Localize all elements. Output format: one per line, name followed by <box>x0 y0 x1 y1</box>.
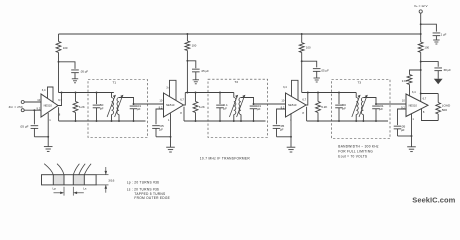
label Zin = 25K <box>9 105 24 109</box>
capacitor C3 50pF (T1 primary) <box>93 93 104 122</box>
svg-text:FOR FULL LIMITING: FOR FULL LIMITING <box>338 149 373 153</box>
svg-text:V+ = 12 V: V+ = 12 V <box>414 4 429 8</box>
label winding notes <box>127 180 171 199</box>
svg-text:µF: µF <box>257 107 261 111</box>
svg-text:3.8K: 3.8K <box>402 79 408 83</box>
capacitor C6 50pF (T2 primary) <box>216 93 228 122</box>
svg-text:pF: pF <box>100 107 104 111</box>
wire U1 output downlink <box>58 107 60 121</box>
wire T3 secondary tap <box>363 98 377 105</box>
pin 3,4 U4 <box>412 90 416 94</box>
pin 6,7 U1 <box>58 98 62 102</box>
wire stage3 bottom rail <box>307 120 388 122</box>
capacitor C6b .01uF (T2 tap) <box>250 104 262 121</box>
svg-text:9,2: 9,2 <box>37 106 41 110</box>
wire load bottom <box>422 109 439 121</box>
wire U3 feedback strap <box>292 80 299 100</box>
svg-text:100: 100 <box>306 46 311 50</box>
pin 10 U2 <box>159 98 162 102</box>
svg-text:µF: µF <box>401 128 405 132</box>
wire Lp leads <box>44 164 64 175</box>
svg-text:µF: µF <box>379 107 383 111</box>
svg-text:3,4: 3,4 <box>412 90 416 94</box>
svg-text:10: 10 <box>159 98 162 102</box>
svg-text:100: 100 <box>424 46 429 50</box>
wire U3 output riser <box>306 93 308 106</box>
capacitor C3b .01uF (T1 tap) <box>130 104 142 121</box>
op-amp U2 NE510 <box>164 93 184 117</box>
svg-text:T3: T3 <box>358 80 362 84</box>
svg-text:Lp: Lp <box>53 187 57 191</box>
capacitor C7 .05uF (stage3 bypass) <box>313 69 329 78</box>
svg-text:.05 µF: .05 µF <box>321 69 329 73</box>
pin 10 U3 <box>281 98 284 102</box>
wire load top <box>421 93 439 95</box>
svg-text:1 µF: 1 µF <box>441 33 447 37</box>
svg-text:Eout = 70 VOLTS: Eout = 70 VOLTS <box>338 154 367 158</box>
node stage2 supply junction <box>186 60 188 62</box>
pin 1 U2 <box>168 118 170 122</box>
node stage4 68uF junction <box>420 61 422 63</box>
inductor T2 secondary <box>237 95 246 121</box>
svg-text:.05 µF: .05 µF <box>20 125 29 129</box>
ground 1uF <box>433 40 439 44</box>
wire stage2 bottom rail <box>184 120 266 122</box>
svg-text:500: 500 <box>442 108 447 112</box>
capacitor C1 .05uF (stage1 bypass) <box>71 69 88 78</box>
node input terminal bottom <box>21 109 24 112</box>
svg-text:LOAD: LOAD <box>442 103 451 107</box>
wire 68uF branch <box>421 62 439 67</box>
capacitor C11 68uF <box>434 68 451 79</box>
svg-text:BANDWIDTH ~ 300 KHz: BANDWIDTH ~ 300 KHz <box>338 144 379 148</box>
resistor R8 6.2K (stage3 load) <box>316 93 328 122</box>
svg-text:3,4: 3,4 <box>42 88 46 92</box>
ground 68uF (solid) <box>434 79 443 85</box>
resistor R2 100 (stage2 supply dropper) <box>185 34 197 93</box>
wire U2 output riser <box>184 93 186 106</box>
wire U1 feedback strap <box>48 87 54 102</box>
resistor R9 LOAD 500 <box>436 94 451 121</box>
pin 1 U4 <box>412 117 414 121</box>
svg-text:6,7: 6,7 <box>302 97 306 101</box>
svg-text:FROM OUTER EDGE: FROM OUTER EDGE <box>134 196 170 200</box>
wire U1 output riser <box>58 93 62 106</box>
capacitor C5 .05uF (U2 input bypass) <box>152 109 164 137</box>
pin 8 U2 <box>180 111 182 115</box>
pin 8 U4 <box>423 110 425 114</box>
wire T1 secondary tap <box>119 98 134 105</box>
op-amp U4 NE510 <box>406 94 428 117</box>
pin 9,2 U4 <box>401 106 405 110</box>
ground U2 <box>166 137 175 152</box>
capacitor C2 .05uF (U1 input bypass) <box>20 110 39 137</box>
wire stage1 bottom rail <box>59 120 146 122</box>
wire U2 ground link <box>156 113 171 137</box>
wire T2 secondary tap <box>241 98 254 105</box>
capacitor C9b .01uF (T3 tap) <box>372 104 384 121</box>
label 10.7 MHz IF transformer <box>200 156 251 160</box>
ground stage2 bypass <box>193 80 199 84</box>
pin 10 U1 <box>37 98 40 102</box>
svg-text:µF: µF <box>223 107 227 111</box>
capacitor C9 50pF (T3 primary) <box>335 93 346 122</box>
wire stage1 bypass branch <box>59 62 76 69</box>
pin 9,2 U2 <box>159 106 163 110</box>
pin 8 U1 <box>59 112 61 116</box>
svg-text:Ls: Ls <box>83 187 87 191</box>
wire stage1 top rail <box>59 92 114 94</box>
node V+ junction <box>420 23 422 25</box>
transformer T3 box <box>332 80 391 139</box>
transformer T2 box <box>208 79 268 137</box>
label Ls <box>83 187 87 191</box>
op-amp U3 NE510 <box>286 93 307 117</box>
wire U2 feedback strap <box>170 80 177 100</box>
ground U4 <box>407 136 416 152</box>
inductor T1 primary <box>107 93 116 122</box>
svg-text:100: 100 <box>63 46 68 50</box>
wire T3 to U4 <box>376 103 406 105</box>
wire U4 output riser <box>420 94 422 102</box>
resistor R1 100 (stage1 supply dropper) <box>56 34 68 93</box>
svg-text:SeekIC.com: SeekIC.com <box>412 196 455 205</box>
wire U3 ground link <box>277 113 292 137</box>
node stage4 bias junction <box>420 69 422 71</box>
op-amp U1 NE510 <box>41 94 58 117</box>
svg-text:.05 µF: .05 µF <box>201 69 209 73</box>
ground U1 <box>44 137 53 152</box>
resistor R3 100 (stage3 supply dropper) <box>299 34 311 93</box>
wire input top <box>24 101 41 103</box>
wire stage3 top rail <box>302 92 357 94</box>
wire stage2 bypass branch <box>187 61 195 68</box>
svg-text:6.2K: 6.2K <box>199 105 205 109</box>
svg-text:100: 100 <box>192 44 197 48</box>
pin 1 U1 <box>49 118 51 122</box>
pin 3,4 U3 <box>283 85 287 89</box>
inductor T2 primary <box>229 93 238 122</box>
svg-text:µF: µF <box>280 128 284 132</box>
wire U4 ground link <box>398 114 413 137</box>
capacitor C8 .05uF (U3 input bypass) <box>273 109 286 137</box>
svg-text:10: 10 <box>402 98 405 102</box>
pin 1 U3 <box>290 118 292 122</box>
svg-text:Ls : 20 TURNS #36: Ls : 20 TURNS #36 <box>127 187 159 191</box>
wire V+ rail <box>59 33 421 35</box>
label SeekIC.com watermark <box>412 196 455 205</box>
inductor T3 secondary <box>359 95 368 121</box>
svg-text:NE510: NE510 <box>409 104 418 108</box>
svg-text:3/16: 3/16 <box>108 178 114 182</box>
label bandwidth note <box>338 144 379 158</box>
svg-text:µF: µF <box>137 107 141 111</box>
inductor T3 primary <box>352 93 361 122</box>
dimension winding spacing <box>54 187 84 196</box>
pin 9,2 U3 <box>281 106 285 110</box>
wire U2 output downlink <box>183 107 185 121</box>
capacitor C10 1uF <box>433 33 447 40</box>
transformer T1 box <box>88 80 148 138</box>
svg-text:6.2K: 6.2K <box>321 105 327 109</box>
svg-text:3,4: 3,4 <box>283 85 287 89</box>
svg-text:µF: µF <box>159 128 163 132</box>
svg-text:NE510: NE510 <box>44 104 53 108</box>
svg-text:pF: pF <box>342 107 346 111</box>
wire U3 output downlink <box>306 107 308 121</box>
svg-text:.05 µF: .05 µF <box>80 69 88 73</box>
ground stage1 bypass <box>72 79 78 83</box>
wire U1 ground link <box>34 113 49 138</box>
wire stage2 top rail <box>185 92 234 94</box>
svg-text:10.7 MHz IF TRANSFORMER: 10.7 MHz IF TRANSFORMER <box>200 156 251 160</box>
node input terminal top <box>21 101 24 104</box>
pin 8 U3 <box>302 111 304 115</box>
resistor R6 6.2K (stage1 load) <box>73 93 85 122</box>
svg-text:10: 10 <box>281 98 284 102</box>
dimension 3/16 <box>96 167 115 193</box>
label Lp <box>53 187 57 191</box>
svg-text:6,7: 6,7 <box>180 97 184 101</box>
svg-text:NE510: NE510 <box>166 103 175 107</box>
wire stage3 bypass branch <box>302 61 317 67</box>
node rail end junction <box>420 33 422 35</box>
node rail junction stage2 <box>186 33 188 35</box>
pin 6,7 U4 <box>423 96 427 100</box>
pin 3,4 U2 <box>166 86 170 90</box>
svg-text:Zin = 25K: Zin = 25K <box>9 105 24 109</box>
pin 10 U4 <box>402 98 405 102</box>
inductor T1 secondary <box>115 95 124 121</box>
capacitor C12 .05uF (U4 input bypass) <box>394 109 406 136</box>
wire T2 to U3 <box>254 103 286 105</box>
coil form body <box>42 175 97 185</box>
node V+ = 12V terminal <box>414 4 429 34</box>
node rail junction stage3 <box>301 33 303 35</box>
node stage3 supply junction <box>301 60 303 62</box>
wire input bottom <box>24 109 41 111</box>
pin 3,4 U1 <box>42 88 46 92</box>
resistor R4 100 (stage4 supply dropper) <box>418 34 429 94</box>
svg-text:Lp : 20 TURNS #36: Lp : 20 TURNS #36 <box>127 180 160 184</box>
svg-text:T1: T1 <box>113 80 117 84</box>
wire T1 to U2 <box>134 103 164 105</box>
ground stage3 bypass <box>314 78 320 82</box>
pin 6,7 U2 <box>180 97 184 101</box>
resistor R7 6.2K (stage2 load) <box>193 93 205 122</box>
ground U3 <box>287 137 296 152</box>
svg-text:68 µF: 68 µF <box>444 68 452 72</box>
pin 6,7 U3 <box>302 97 306 101</box>
node U4 output junction <box>420 93 422 95</box>
resistor R5 3.8K (stage4 bias) <box>402 70 421 96</box>
capacitor C4 .05uF (stage2 bypass) <box>192 69 209 79</box>
svg-text:T2: T2 <box>235 80 239 84</box>
wire Ls leads <box>73 164 91 175</box>
svg-text:NE510: NE510 <box>288 103 297 107</box>
pin 9,2 U1 <box>37 106 41 110</box>
wire 1uF branch <box>421 24 437 31</box>
svg-text:6,7: 6,7 <box>423 96 427 100</box>
svg-text:6.2K: 6.2K <box>79 105 85 109</box>
node stage1 supply junction <box>58 61 60 63</box>
